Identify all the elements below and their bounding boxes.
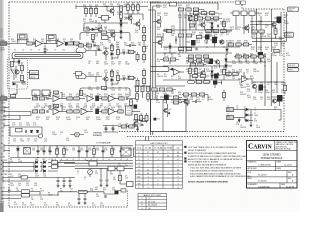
value label Q11 10uF — [127, 50, 131, 54]
wire D72 col — [211, 66, 213, 80]
value label C43 15K — [96, 148, 100, 152]
value label R131 330 — [46, 117, 50, 121]
svg-text:100: 100 — [184, 99, 187, 101]
svg-text:47uF: 47uF — [156, 102, 160, 104]
value label C16 1N4148 — [44, 104, 50, 108]
svg-text:220pF: 220pF — [70, 41, 75, 43]
bottom cluster box d2 — [191, 93, 196, 96]
value label R122 100 — [69, 107, 73, 111]
wire loop pair B upper — [76, 75, 86, 79]
svg-text:10uF: 10uF — [230, 29, 234, 31]
svg-text:100pF: 100pF — [125, 63, 130, 65]
svg-text:100: 100 — [16, 150, 19, 152]
value label C22 .22 — [27, 139, 30, 143]
wire drops ch1 — [190, 12, 196, 30]
transistor Q24 — [220, 40, 224, 44]
svg-text:.22: .22 — [220, 34, 222, 36]
wire bottom chain A — [76, 45, 86, 47]
value label D5 100K — [18, 159, 23, 163]
node AC3 stub — [3, 170, 8, 173]
wire drops from rail — [86, 7, 96, 18]
value label C24 470 — [44, 139, 47, 143]
value label R195 22K — [267, 34, 271, 38]
wire rail col A — [143, 44, 145, 63]
value label R25 47K — [232, 70, 236, 74]
wire top feed — [151, 3, 219, 10]
value label R188 .22 — [258, 21, 262, 25]
value label R160 220pF — [206, 20, 211, 24]
svg-text:C10: C10 — [62, 49, 65, 51]
value label R9 5.6K — [192, 61, 196, 65]
relay box out2 — [241, 11, 247, 16]
value label R103 220pF — [118, 94, 123, 98]
diode D11 — [120, 24, 123, 26]
wire D70 col — [211, 18, 213, 33]
ground C96 — [63, 185, 66, 188]
transistor Q51 dark — [205, 35, 210, 40]
ground ext — [120, 36, 123, 39]
capacitor C97 — [69, 180, 72, 181]
resistor R48 — [102, 97, 107, 100]
value label +0 10uF — [90, 159, 92, 161]
node P1 stub — [2, 190, 7, 193]
value label C23 100 — [34, 139, 37, 143]
transistor Qg dark — [134, 105, 138, 109]
resistor R124 — [196, 81, 201, 84]
value label P7 330 — [56, 203, 59, 207]
svg-text:10uF: 10uF — [246, 86, 250, 88]
value label R47 330 — [171, 91, 174, 95]
value label C35 15K — [32, 148, 36, 152]
value label R41 .22 — [260, 97, 263, 101]
wire rm 82 — [252, 81, 284, 83]
value label R55 15K — [95, 34, 99, 38]
svg-text:C9: C9 — [54, 49, 56, 51]
svg-text:C-30049-S05: C-30049-S05 — [258, 187, 271, 189]
value label C29 2.2K — [118, 124, 122, 128]
emitter resistor R90 — [274, 29, 277, 34]
value label Q5 5.6K — [88, 47, 92, 51]
wire fuse right — [88, 192, 111, 194]
wire Q11 out — [101, 25, 103, 35]
value label R34 1% — [267, 82, 270, 86]
value label C26 .1 — [60, 132, 63, 136]
junction jr13 — [111, 69, 112, 70]
svg-text:330: 330 — [13, 140, 16, 142]
value label R174 220pF — [226, 41, 231, 45]
svg-text:APPROVED: APPROVED — [248, 167, 258, 170]
node P3 stub — [2, 197, 7, 200]
value label R95 5.6K — [62, 94, 66, 98]
value label R67 47uF — [250, 76, 254, 80]
left dashed cut line — [8, 2, 10, 207]
box low right — [127, 182, 134, 187]
resistor R33 — [136, 80, 139, 85]
svg-text:100pF: 100pF — [192, 23, 197, 25]
cluster3 box b1 — [152, 88, 157, 91]
wire vertical bus 1 — [150, 2, 152, 135]
value label R28 220pF — [70, 39, 75, 43]
svg-text:+5: +5 — [66, 159, 68, 161]
bottom cluster box d1 — [183, 93, 188, 96]
value label D14 100 — [18, 183, 21, 187]
value label J2 100K — [254, 113, 259, 117]
node stub chain3d — [4, 116, 20, 121]
resistor row2 b — [243, 55, 248, 58]
svg-text:680: 680 — [86, 119, 89, 121]
value label relay coil — [157, 119, 160, 121]
transistor Q55 dark — [214, 74, 219, 79]
fuse F1 line — [79, 191, 87, 193]
capacitor C26 — [47, 110, 48, 113]
svg-text:C6: C6 — [30, 49, 32, 51]
value label R64 1K — [145, 46, 148, 50]
wire rm bus 62 — [226, 61, 266, 63]
value label R146 15K — [171, 33, 175, 37]
svg-text:100pF: 100pF — [125, 96, 130, 98]
resistor R100 — [121, 125, 126, 128]
svg-text:330: 330 — [83, 109, 86, 111]
wire U2A out — [59, 98, 67, 100]
value label R15 100K — [186, 69, 191, 73]
capacitor C65 polarized dark — [102, 148, 105, 155]
transistor Q20 — [157, 19, 161, 23]
node stub chain3b — [4, 106, 9, 109]
resistor R47 vertical above — [80, 90, 83, 95]
junction jr10 — [195, 79, 196, 80]
resistor row2b r3 — [209, 12, 214, 15]
resistor R123 — [223, 92, 226, 97]
wire Q12 — [108, 30, 115, 41]
junction conn — [57, 194, 58, 195]
value label R93 3.3K — [48, 94, 52, 98]
wire rm vert 277 — [276, 62, 278, 93]
resistor R16 — [74, 42, 79, 45]
svg-text:Ch 2 B-AB: Ch 2 B-AB — [154, 147, 163, 150]
resistor R81 top row — [178, 8, 183, 11]
wire mute internal 1 — [11, 61, 16, 80]
resistor R49 — [119, 97, 124, 100]
wire right verticals — [257, 9, 281, 52]
value label R104 100pF — [125, 94, 130, 98]
diode D2 mute — [13, 83, 15, 86]
value label R121 4.7K — [62, 107, 66, 111]
svg-text:220pF: 220pF — [243, 55, 248, 57]
mute relay box 2 — [30, 75, 39, 79]
value label R49 47uF — [156, 100, 160, 104]
resistor R2 — [27, 42, 32, 45]
wire c90 — [192, 101, 201, 103]
value label R30 22K — [239, 82, 243, 86]
box conn A — [22, 190, 30, 193]
wire spk to edge — [253, 110, 281, 121]
svg-text:1N4148: 1N4148 — [253, 71, 259, 73]
value label C27 22K — [66, 138, 70, 142]
value label R98 5.6K — [83, 94, 87, 98]
value label P6 1% — [31, 189, 34, 193]
svg-text:10uF: 10uF — [232, 63, 236, 65]
capacitor C96 — [63, 180, 66, 181]
svg-text:100: 100 — [104, 29, 107, 31]
svg-text:47uF: 47uF — [104, 72, 108, 74]
value label R134 .1 — [76, 117, 80, 121]
value label C17 100pF — [52, 104, 57, 108]
svg-text:470: 470 — [110, 46, 113, 48]
svg-text:680: 680 — [192, 34, 195, 36]
value label R23 .1 — [260, 61, 263, 65]
wire r133 — [143, 25, 145, 44]
value label U10 680 — [95, 187, 98, 191]
wire bottom cluster — [182, 95, 208, 102]
value label R166 1N4148 — [206, 32, 212, 36]
value label R162 1N4148 — [220, 22, 226, 26]
value label +8 22K — [84, 159, 86, 161]
lamp LP2 cross — [75, 133, 78, 136]
value label R181 15K — [244, 41, 248, 45]
resistor R130 — [127, 5, 130, 10]
value label Q0 1K — [125, 88, 128, 92]
svg-text:10uF: 10uF — [164, 56, 168, 58]
value label R178 330 — [251, 27, 255, 31]
resistor R30 — [111, 71, 114, 76]
value label R63 680 — [138, 43, 141, 47]
ground spk — [250, 124, 253, 127]
svg-text:680: 680 — [199, 34, 202, 36]
svg-text:R SMPTE IS HELPFUL FOR QUALITY: R SMPTE IS HELPFUL FOR QUALITY UNIT 2W R… — [188, 155, 247, 158]
wire after conn — [30, 192, 59, 196]
value label Q25 220pF — [88, 87, 93, 91]
ground chain B — [130, 105, 133, 108]
wire mute extra — [19, 59, 22, 74]
value label R49 3.3K — [110, 31, 114, 35]
junction jr3 — [276, 81, 277, 82]
value label C15 100K — [36, 104, 41, 108]
wire vas b ext — [134, 78, 138, 86]
wire long loop to VAS — [151, 67, 170, 72]
value label C25 220pF — [52, 132, 57, 136]
resistor R91 — [252, 30, 257, 33]
value label +7 22K — [78, 159, 80, 161]
wire Q9 leads — [163, 104, 168, 117]
value label R91 680 — [34, 94, 37, 98]
value label C21 47K — [84, 104, 88, 108]
svg-text:100pF: 100pF — [244, 29, 249, 31]
resistor R31 — [117, 75, 120, 80]
value label R21 1K — [18, 39, 21, 43]
diode D30 — [225, 59, 228, 61]
resistor row2a r1 — [189, 17, 194, 20]
wire right links — [220, 31, 233, 55]
svg-text:+1: +1 — [96, 159, 98, 161]
wire rect row3 — [8, 170, 58, 172]
resistor R113 — [223, 21, 226, 26]
value label R57 100pF — [208, 97, 213, 101]
value label R74 47uF — [279, 53, 283, 57]
svg-text:10uF: 10uF — [43, 161, 47, 163]
resistor R57 — [102, 110, 107, 113]
wire to R47 — [79, 98, 85, 100]
value label R127 100K — [104, 107, 109, 111]
ground under C5 — [44, 51, 47, 54]
svg-text:+3: +3 — [54, 159, 56, 161]
svg-text:+6: +6 — [126, 159, 128, 161]
svg-text:100: 100 — [118, 89, 121, 91]
svg-text:NOTES: UNLESS OTHERWISE SPECI: NOTES: UNLESS OTHERWISE SPECIFIED — [188, 182, 229, 184]
wire out bus 1 — [252, 37, 284, 39]
wire d74 — [169, 43, 171, 53]
svg-text:47uF: 47uF — [118, 109, 122, 111]
svg-text:470: 470 — [124, 19, 127, 21]
value label R138 2.2K — [116, 117, 120, 121]
rail resistor column A2 — [143, 54, 146, 59]
svg-text:4 ALL CAPACITORS IN MICROFARA: 4 ALL CAPACITORS IN MICROFARADS 50 VOLT … — [190, 175, 251, 178]
value label D6 3.3K — [35, 159, 39, 163]
connector plug SPK2 — [227, 116, 234, 120]
value label R120 330 — [55, 107, 59, 111]
relay module box RY3 — [151, 99, 186, 131]
transistor Q21 — [158, 40, 162, 44]
svg-text:100: 100 — [96, 89, 99, 91]
transistor Q30 — [252, 84, 256, 88]
capacitor C90 — [195, 100, 196, 103]
value label C24 470 — [108, 104, 111, 108]
value label R73 220pF — [272, 53, 277, 57]
svg-text:47uF: 47uF — [171, 28, 175, 30]
value label R20 2.2K — [239, 61, 243, 65]
svg-text:.1: .1 — [199, 71, 200, 73]
wire cluster2 links — [186, 54, 226, 71]
dashed separator upper — [118, 131, 284, 133]
wire chain3 to bus — [133, 119, 143, 121]
wire VAS B verticals — [112, 70, 118, 86]
wire top row link — [198, 10, 204, 15]
value label R37 100 — [89, 5, 92, 9]
value label Q6 5.6K — [96, 47, 100, 51]
value label R56 330 — [86, 43, 89, 47]
wire row2b — [193, 12, 218, 14]
junction jr17 — [86, 160, 87, 161]
value label R29 15K — [232, 76, 236, 80]
capacitor C5 to ground — [44, 49, 47, 50]
wire Q20 leads — [153, 16, 161, 27]
value label R194 1N4148 — [260, 34, 266, 38]
wire feedback U2A — [50, 93, 62, 99]
svg-text:Desig: Desig — [137, 148, 141, 150]
dashed stub vertical — [127, 191, 129, 208]
value label R165 680 — [199, 33, 203, 37]
value label C34 .1 — [24, 148, 27, 152]
svg-text:220pF: 220pF — [258, 92, 263, 94]
value label D11 10uF — [35, 174, 39, 178]
diode D50 dark — [30, 130, 33, 132]
svg-text:47uF: 47uF — [125, 125, 129, 127]
svg-text:100pF: 100pF — [96, 119, 101, 121]
resistor pair top a — [163, 58, 168, 61]
wire q43 — [181, 98, 188, 107]
value label Q7 1N4148 — [103, 46, 109, 50]
svg-text:+4: +4 — [60, 159, 62, 161]
value label R35 1M — [274, 82, 277, 86]
value label R3 10K — [178, 54, 182, 58]
svg-text:2 ALL RESISTORS 5% OHMS UNLES: 2 ALL RESISTORS 5% OHMS UNLESS NOTED — [190, 169, 234, 172]
value label C25 100pF — [116, 104, 121, 108]
diode D61 — [43, 161, 45, 164]
resistor grid g3 — [147, 86, 150, 91]
svg-text:150W STEREO: 150W STEREO — [262, 152, 280, 156]
dashed enclosure mute — [8, 59, 28, 90]
value label C8 4.7K — [46, 49, 48, 51]
value label R14 47uF — [226, 74, 230, 78]
value label U5 680 — [110, 172, 113, 176]
connector J1 input jack — [1, 42, 8, 46]
transistor Q27 dark low — [258, 52, 263, 58]
wire cluster3 — [152, 90, 182, 103]
svg-text:100: 100 — [18, 185, 21, 187]
capacitor C60 polarized dark — [37, 148, 40, 155]
svg-text:+7: +7 — [78, 159, 80, 161]
wire feedback loop chainB stage2 — [80, 88, 130, 96]
value label C6 47uF — [30, 49, 32, 51]
node AC1 stub — [3, 161, 8, 164]
value label R52 47uF — [178, 100, 182, 104]
capacitor C82 — [217, 73, 218, 76]
value label C40 15K — [72, 148, 76, 152]
diode D51 dark — [36, 130, 39, 132]
value label R7 10K — [178, 76, 182, 80]
svg-text:100: 100 — [281, 92, 284, 94]
svg-text:.22: .22 — [254, 109, 256, 111]
resistor R46 — [74, 97, 79, 100]
resistor R102 — [56, 149, 59, 154]
resistor R76 — [92, 34, 95, 39]
resistor R101 — [129, 125, 134, 128]
value label R24 10uF — [267, 59, 271, 63]
value label U7 47K — [125, 164, 129, 168]
value label R1 10uF — [164, 54, 168, 58]
value label R48 10K — [178, 92, 182, 96]
wire C12 — [120, 78, 128, 80]
resistor R45 — [67, 97, 72, 100]
resistor R72 — [95, 8, 98, 13]
value label R8 1K — [186, 61, 189, 65]
svg-text:J: J — [139, 162, 140, 164]
svg-text:100: 100 — [250, 55, 253, 57]
svg-text:3 ALL DIODES ARE 1N4003 1/2 W: 3 ALL DIODES ARE 1N4003 1/2 WATT UNLESS … — [190, 172, 241, 175]
resistor R121 — [195, 68, 198, 73]
diode D12 — [92, 28, 94, 31]
wire loop pair A upper — [76, 49, 86, 53]
cluster3 box b4 — [173, 96, 178, 99]
transistor Q52 — [201, 71, 205, 75]
wire out bus 2 — [252, 40, 284, 42]
wire cluster links — [180, 42, 195, 47]
diode D6 — [111, 79, 113, 82]
value label J8 47K — [236, 122, 240, 126]
svg-text:10uF: 10uF — [30, 204, 34, 206]
wire U7 — [238, 72, 252, 79]
svg-text:.1: .1 — [260, 63, 261, 65]
svg-text:TO PRE: TO PRE — [1, 117, 7, 119]
diode D31 — [225, 65, 228, 67]
pot VR1 dark box — [96, 96, 99, 101]
transistor Q41 — [215, 60, 219, 64]
wire lv bus left extension — [60, 161, 75, 164]
svg-text:10uF: 10uF — [35, 175, 39, 177]
svg-text:TO POWER AMP: TO POWER AMP — [96, 142, 112, 145]
value label C16 4.7K — [12, 123, 16, 127]
svg-text:B+: B+ — [1, 143, 3, 145]
svg-text:SCHEMATIC: SCHEMATIC — [248, 183, 259, 186]
